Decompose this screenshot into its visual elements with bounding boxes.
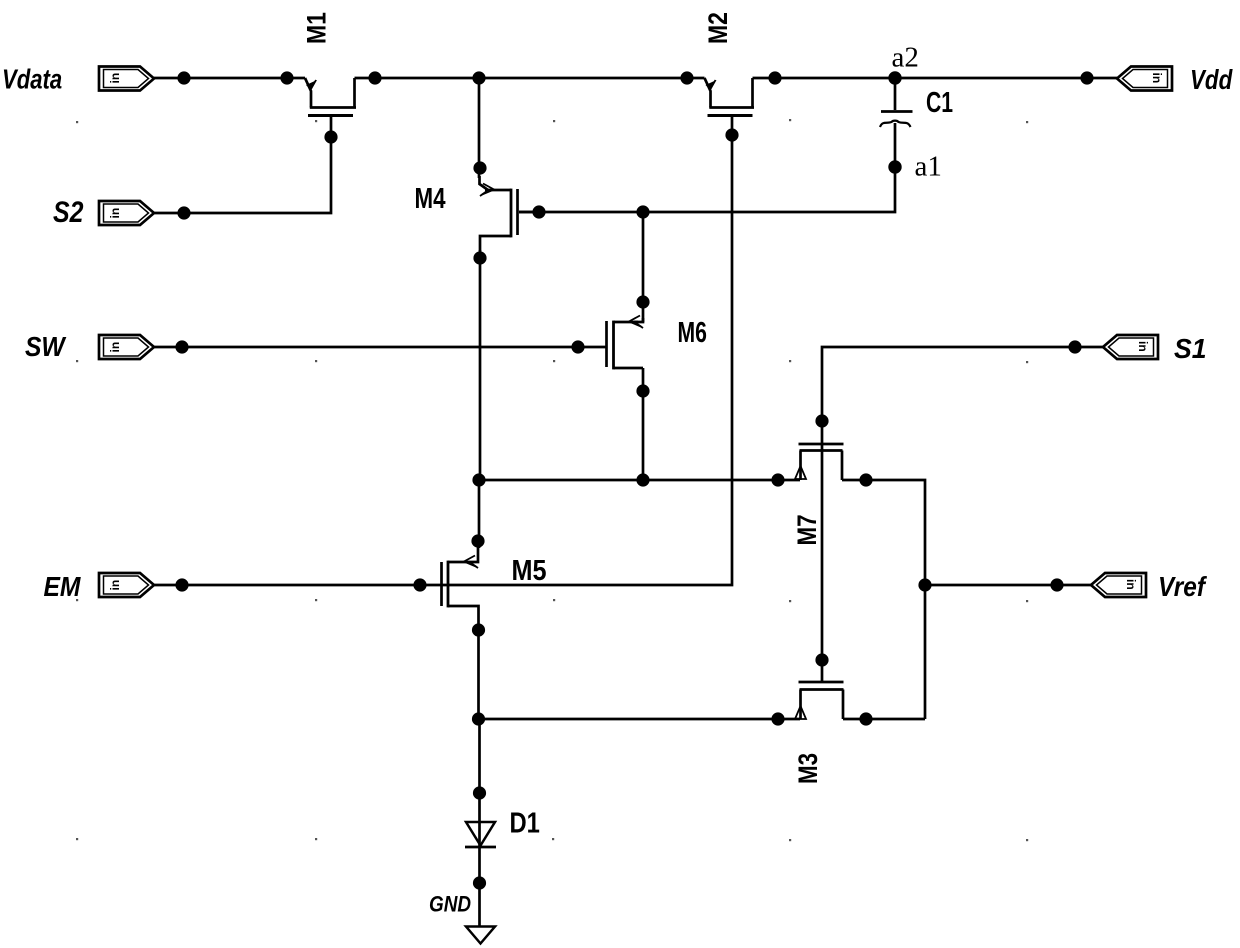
port EM — [44, 571, 155, 603]
wire D1 to ground — [473, 847, 486, 927]
port Vdata — [2, 64, 154, 95]
wire mid row to M5 drain — [471, 480, 484, 548]
svg-text:in: in — [108, 208, 122, 219]
transistor M6 — [607, 316, 707, 370]
svg-text:in: in — [1150, 73, 1164, 84]
ground — [429, 892, 495, 943]
svg-text:in: in — [1124, 579, 1138, 590]
svg-text:M1: M1 — [302, 12, 332, 44]
wire bottom row — [472, 712, 800, 725]
wire M4 gate row to node a1 — [519, 123, 895, 219]
capacitor C1 — [880, 78, 953, 127]
svg-text:in: in — [108, 342, 122, 353]
wire M4 gate row to M6 drain — [636, 212, 649, 322]
svg-text:S1: S1 — [1174, 332, 1207, 364]
wire Vdata to M4 drain riser — [473, 78, 486, 178]
port Vref — [1091, 570, 1207, 602]
wire M6 source to mid row — [636, 368, 649, 480]
transistor M5 — [442, 546, 547, 626]
wire M4 source to mid row — [473, 250, 486, 480]
svg-text:a2: a2 — [892, 42, 919, 74]
svg-text:SW: SW — [25, 331, 67, 363]
svg-text:a1: a1 — [915, 151, 942, 183]
transistor M4 — [415, 176, 544, 252]
node a1 — [888, 151, 942, 183]
grid dots (decorative) — [76, 119, 1028, 841]
svg-text:M6: M6 — [678, 317, 707, 349]
wire S2 to M1 gate — [154, 140, 331, 220]
port SW — [25, 331, 154, 363]
wire EM row to M2 gate riser — [154, 138, 732, 592]
svg-text:M5: M5 — [512, 553, 547, 586]
svg-text:M2: M2 — [703, 12, 733, 44]
svg-text:in: in — [108, 73, 122, 84]
transistor M7 — [793, 444, 843, 546]
transistor M2 — [703, 12, 754, 142]
diode D1 — [465, 806, 540, 847]
svg-text:GND: GND — [429, 892, 471, 917]
transistor M3 — [794, 682, 843, 784]
wire M5 source to bottom row — [472, 623, 485, 719]
wire bottom row to diode D1 — [473, 719, 486, 846]
wire Vdata row — [154, 71, 1117, 84]
svg-text:M4: M4 — [415, 183, 447, 214]
svg-text:Vdata: Vdata — [2, 64, 62, 95]
svg-text:D1: D1 — [510, 806, 540, 839]
wire M3 source right — [843, 712, 925, 725]
svg-text:S2: S2 — [53, 195, 84, 229]
node a2 — [888, 42, 919, 85]
svg-text:EM: EM — [44, 571, 82, 603]
svg-text:in: in — [108, 580, 122, 591]
svg-text:Vdd: Vdd — [1190, 65, 1233, 96]
port S1 — [1103, 332, 1207, 364]
wire SW row — [154, 340, 606, 353]
port Vdd — [1117, 65, 1233, 96]
port S2 — [53, 195, 154, 229]
wire M7 source to Vref column — [842, 473, 925, 719]
wire Vref row — [918, 578, 1091, 591]
wire S1 to M7 M3 gates — [815, 340, 1103, 682]
svg-text:M7: M7 — [793, 514, 822, 545]
svg-text:C1: C1 — [926, 87, 953, 119]
transistor M1 — [302, 12, 356, 144]
svg-text:M3: M3 — [794, 753, 823, 784]
svg-text:Vref: Vref — [1158, 570, 1207, 602]
svg-text:in: in — [1136, 341, 1150, 352]
wire mid row — [472, 473, 800, 486]
